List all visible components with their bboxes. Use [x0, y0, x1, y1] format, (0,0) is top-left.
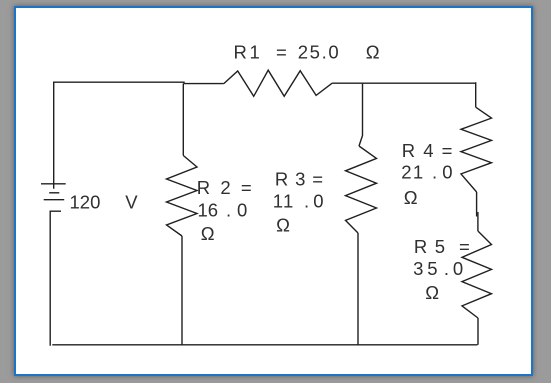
battery B1 plate - (short) [49, 192, 59, 194]
wire: R5 bottom lead [477, 318, 479, 345]
svg-text:R 3 =: R 3 = [275, 169, 324, 190]
svg-text:Ω: Ω [366, 42, 380, 63]
battery B1 plate + (long lower) [44, 199, 64, 201]
wire: jog segment into R5 [477, 212, 479, 231]
svg-text:Ω: Ω [201, 223, 215, 244]
svg-text:5: 5 [427, 258, 437, 279]
wire: R3 bottom lead [357, 233, 359, 345]
svg-text:0: 0 [237, 199, 247, 220]
svg-text:Ω: Ω [404, 187, 418, 208]
wire: battery + terminal up left side and top rail to R1 [54, 82, 224, 189]
svg-text:R 5 =: R 5 = [414, 236, 471, 257]
svg-text:0: 0 [313, 191, 323, 212]
svg-text:25.0: 25.0 [298, 42, 340, 63]
wire: R2 top lead [182, 84, 184, 156]
svg-text:.: . [444, 258, 449, 279]
wire: R3 top lead [359, 84, 363, 146]
svg-text:21: 21 [401, 162, 424, 183]
svg-text:11: 11 [273, 191, 295, 212]
svg-text:.: . [226, 199, 231, 220]
wire: R2 bottom lead [181, 236, 183, 345]
wire: bottom rail [52, 344, 477, 346]
svg-text:1: 1 [250, 42, 260, 63]
svg-text:V: V [125, 192, 138, 213]
svg-text:R 2 =: R 2 = [197, 177, 252, 198]
svg-text:R: R [234, 42, 247, 63]
resistor R2 [167, 156, 198, 237]
svg-text:120: 120 [70, 192, 101, 213]
svg-text:Ω: Ω [276, 215, 290, 236]
resistor R3 [346, 146, 377, 233]
svg-text:=: = [276, 42, 287, 63]
wire: between R4 and R5 [476, 192, 478, 217]
svg-text:Ω: Ω [425, 282, 439, 303]
resistor R5 [462, 231, 492, 318]
svg-text:.: . [304, 191, 309, 212]
wire: top rail from R1 to right branch [332, 82, 476, 84]
svg-text:0: 0 [453, 258, 463, 279]
svg-text:. 0: . 0 [432, 162, 453, 183]
svg-text:3: 3 [413, 258, 423, 279]
battery B1 plate + (long) [41, 183, 66, 185]
resistor R4 [461, 107, 492, 192]
svg-text:16: 16 [198, 199, 219, 220]
resistor R1 [224, 70, 332, 96]
svg-text:R 4 =: R 4 = [402, 140, 454, 161]
wire: battery negative lead down to bottom rail [50, 211, 61, 346]
wire: right branch top lead [475, 82, 477, 107]
